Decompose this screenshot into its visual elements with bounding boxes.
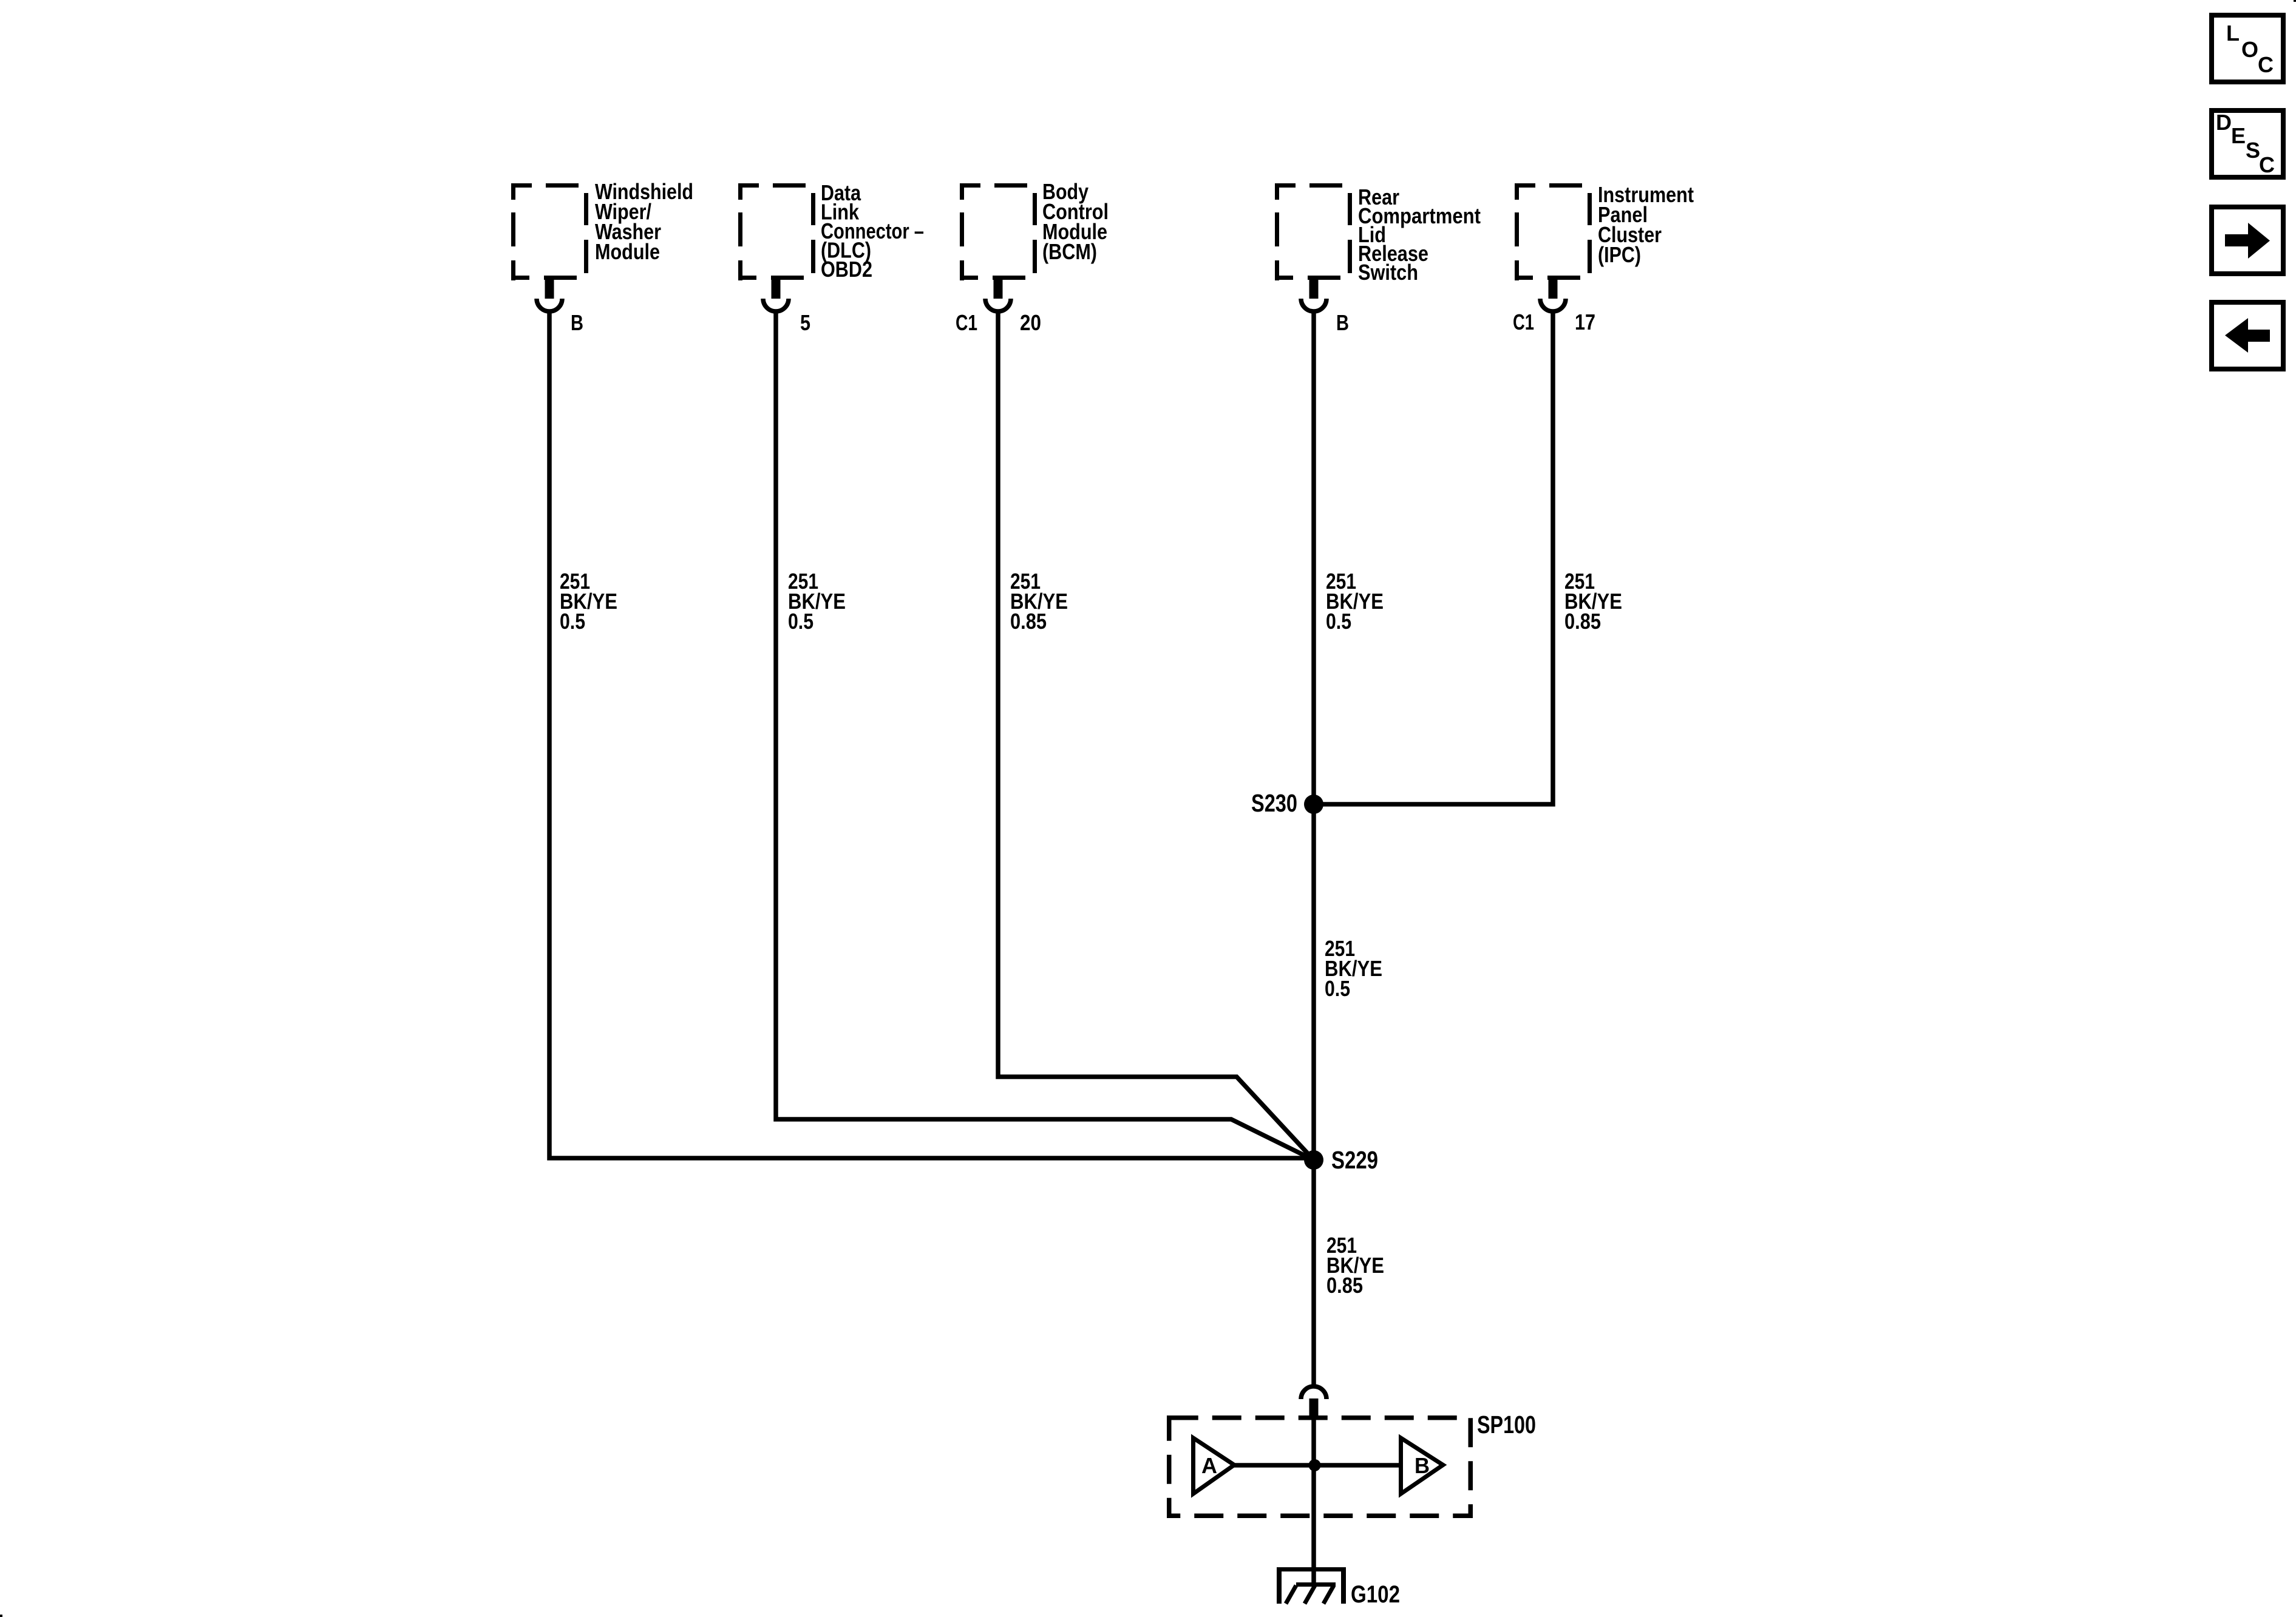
- connector symbol (pin + socket) below box 4: [1301, 276, 1326, 311]
- svg-text:G102: G102: [1351, 1581, 1400, 1608]
- splice pack SP100 dashed box: [1169, 1418, 1471, 1516]
- wire: SP100 feed-through down to ground G102: [1311, 1416, 1316, 1585]
- svg-text:C1: C1: [956, 310, 977, 335]
- label text: Rear Compartment Lid Release Switch: [1358, 185, 1481, 285]
- connector symbol (pin + socket) below box 1: [537, 276, 562, 311]
- svg-text:S229: S229: [1331, 1146, 1378, 1174]
- label text: Body Control Module (BCM): [1042, 179, 1109, 264]
- bus line between A and B terminals: [1234, 1463, 1401, 1468]
- ground symbol G102: [1277, 1567, 1346, 1604]
- svg-text:20: 20: [1020, 310, 1041, 335]
- svg-text:C: C: [2259, 152, 2275, 177]
- LOC navigation icon box: [2212, 15, 2283, 82]
- svg-text:0.5: 0.5: [788, 609, 813, 634]
- connector symbol (pin + socket) below box 5: [1540, 276, 1566, 311]
- wire: IPC pin 17 down and across to S230: [1314, 311, 1553, 804]
- splice S230 junction dot: [1304, 795, 1323, 814]
- connector box: Windshield Wiper/Washer Module: [511, 183, 588, 280]
- splice S229 junction dot: [1304, 1150, 1323, 1170]
- svg-text:0.85: 0.85: [1010, 609, 1047, 634]
- connector box: Data Link Connector (DLC) OBD2: [738, 183, 815, 280]
- wire value label 251 BK/YE 0.5 (wire 2): [788, 569, 846, 634]
- connector box: Body Control Module (BCM): [960, 183, 1037, 280]
- connector box: Instrument Panel Cluster (IPC): [1515, 183, 1592, 280]
- svg-text:C: C: [2258, 52, 2274, 77]
- wire value label 251 BK/YE 0.5 (S230 to S229): [1325, 936, 1382, 1001]
- scan speck bottom-left: [0, 1615, 2, 1617]
- svg-text:(IPC): (IPC): [1598, 242, 1641, 267]
- svg-text:D: D: [2216, 110, 2232, 135]
- svg-text:B: B: [571, 310, 583, 335]
- wire value label 251 BK/YE 0.85 (wire 5): [1564, 569, 1622, 634]
- svg-text:0.85: 0.85: [1326, 1273, 1363, 1298]
- connector symbol (pin + socket) below box 3: [985, 276, 1011, 311]
- svg-text:S230: S230: [1251, 789, 1297, 817]
- wire value label 251 BK/YE 0.5 (wire 1): [560, 569, 617, 634]
- label text: Windshield Wiper/Washer Module: [595, 179, 693, 264]
- svg-text:E: E: [2231, 123, 2246, 148]
- svg-text:(BCM): (BCM): [1042, 239, 1097, 264]
- svg-text:0.85: 0.85: [1564, 609, 1601, 634]
- connector box: Rear Compartment Lid Release Switch: [1275, 183, 1352, 280]
- scan speck top-right: [2294, 0, 2296, 2]
- svg-text:B: B: [1336, 310, 1349, 335]
- svg-text:C1: C1: [1513, 310, 1534, 334]
- wire value label 251 BK/YE 0.5 (wire 4): [1326, 569, 1384, 634]
- svg-text:B: B: [1415, 1453, 1430, 1478]
- connector symbol (socket + pin) above SP100: [1301, 1386, 1326, 1416]
- terminal B triangle inside SP100: [1401, 1438, 1444, 1494]
- svg-text:17: 17: [1575, 310, 1595, 334]
- wire: DLC pin 5 to S229: [776, 311, 1314, 1160]
- wire: Windshield Wiper/Washer Module pin B to S229: [549, 311, 1314, 1158]
- svg-text:Switch: Switch: [1358, 260, 1418, 285]
- terminal A triangle inside SP100: [1194, 1438, 1235, 1494]
- svg-text:0.5: 0.5: [1326, 609, 1351, 634]
- svg-text:SP100: SP100: [1477, 1411, 1536, 1439]
- right-arrow navigation icon box: [2212, 207, 2283, 274]
- svg-text:5: 5: [800, 310, 810, 335]
- svg-text:Module: Module: [595, 239, 660, 264]
- left-arrow navigation icon box: [2212, 302, 2283, 369]
- wire value label 251 BK/YE 0.85 (S229 to SP100): [1326, 1233, 1384, 1298]
- svg-text:0.5: 0.5: [1325, 976, 1350, 1001]
- wire value label 251 BK/YE 0.85 (wire 3): [1010, 569, 1068, 634]
- svg-text:0.5: 0.5: [560, 609, 585, 634]
- wire: Rear Compartment Lid Release Switch pin B down through S230 and S229 to SP100: [1311, 311, 1316, 1385]
- svg-text:S: S: [2246, 138, 2260, 163]
- wire: BCM pin 20 to S229: [998, 311, 1314, 1160]
- label text: Instrument Panel Cluster (IPC): [1598, 182, 1694, 267]
- DESC navigation icon box: [2212, 110, 2283, 177]
- svg-text:L: L: [2226, 21, 2240, 46]
- svg-text:OBD2: OBD2: [821, 257, 872, 282]
- svg-text:O: O: [2241, 37, 2258, 62]
- label text: Data Link Connector (DLC) OBD2: [821, 180, 924, 282]
- junction dot on SP100 bus: [1309, 1459, 1321, 1471]
- connector symbol (pin + socket) below box 2: [763, 276, 789, 311]
- svg-text:A: A: [1201, 1453, 1217, 1478]
